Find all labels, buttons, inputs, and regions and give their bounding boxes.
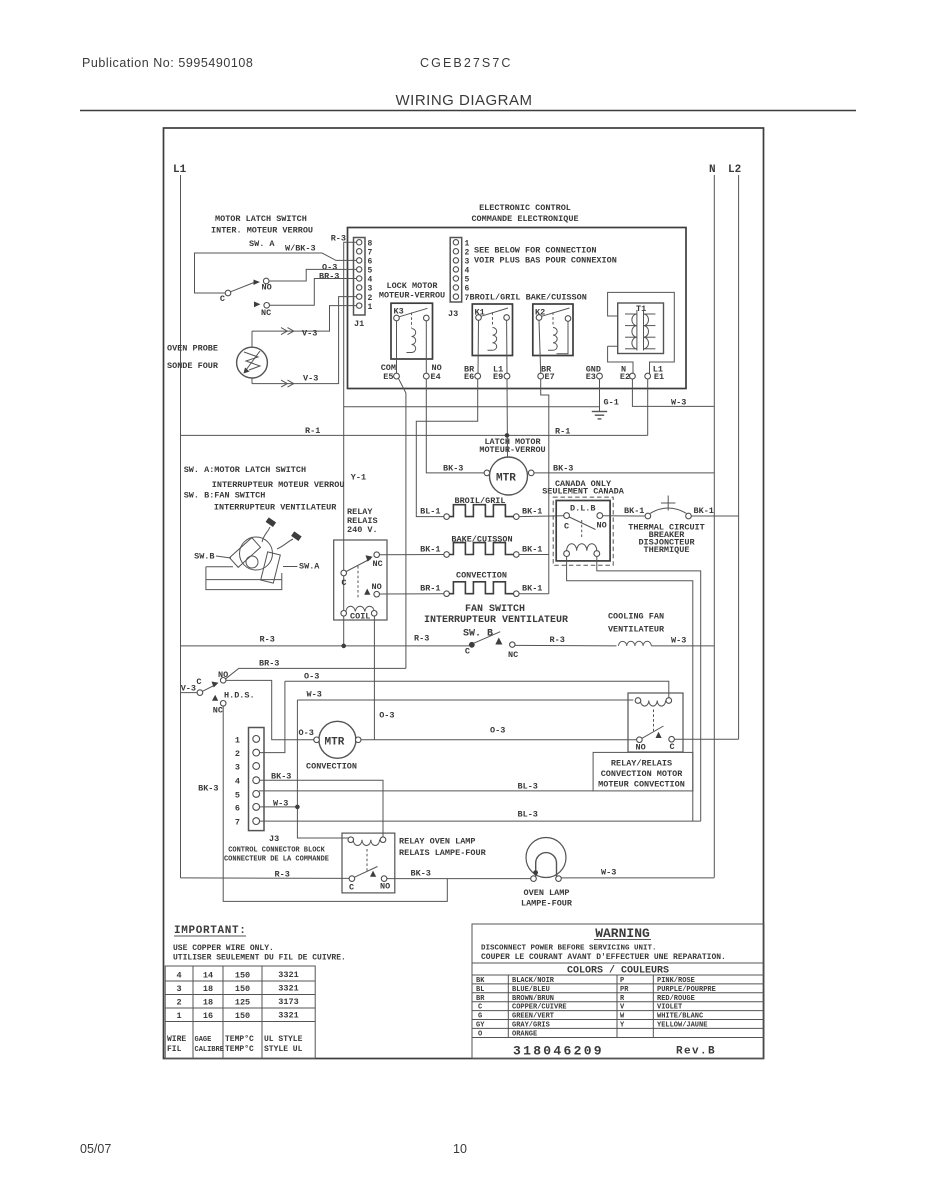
relay convection motor K5 — [628, 693, 683, 753]
svg-text:G-1: G-1 — [604, 398, 619, 408]
wire R-3 J1 pin8 down left side — [344, 242, 357, 646]
wire bake right to E7 riser — [519, 554, 549, 556]
svg-text:V-3: V-3 — [303, 374, 318, 384]
svg-text:BK-1: BK-1 — [522, 584, 542, 594]
svg-text:LOCK MOTOR: LOCK MOTOR — [386, 281, 438, 291]
svg-text:NO: NO — [372, 582, 382, 592]
svg-text:ELECTRONIC CONTROL: ELECTRONIC CONTROL — [479, 203, 571, 213]
svg-text:NC: NC — [213, 706, 223, 716]
svg-text:BROWN/BRUN: BROWN/BRUN — [512, 995, 554, 1003]
board pin E1 — [645, 365, 664, 383]
svg-text:W-3: W-3 — [307, 690, 322, 700]
relay oven lamp K4 — [342, 833, 395, 893]
svg-text:8: 8 — [368, 240, 373, 249]
warning box — [472, 924, 764, 1059]
wire breaker to L2 — [691, 515, 738, 517]
svg-text:CONVECTION: CONVECTION — [456, 571, 507, 581]
relay D.L.B — [556, 501, 610, 561]
svg-text:BL-3: BL-3 — [518, 782, 538, 792]
electronic control board U1 box — [348, 228, 687, 389]
wire lamp relay NO to oven lamp — [387, 878, 531, 880]
relay 240V double line break — [334, 540, 387, 622]
svg-text:INTERRUPTEUR VENTILATEUR: INTERRUPTEUR VENTILATEUR — [214, 503, 337, 513]
svg-text:Publication No: 5995490108: Publication No: 5995490108 — [82, 56, 253, 70]
svg-text:R-1: R-1 — [305, 426, 320, 436]
heating element bake/cuisson — [420, 535, 542, 558]
svg-text:RELAY/RELAIS: RELAY/RELAIS — [611, 759, 672, 769]
svg-text:NO: NO — [380, 882, 390, 892]
svg-text:3: 3 — [465, 258, 470, 267]
svg-text:18: 18 — [203, 984, 213, 994]
svg-text:E9: E9 — [493, 372, 503, 382]
connector J3 top — [448, 238, 470, 320]
svg-text:BK-3: BK-3 — [198, 784, 218, 794]
svg-text:150: 150 — [235, 984, 250, 994]
svg-text:BLUE/BLEU: BLUE/BLEU — [512, 986, 550, 994]
svg-text:BK-3: BK-3 — [553, 464, 573, 474]
svg-text:MOTEUR CONVECTION: MOTEUR CONVECTION — [598, 780, 685, 790]
svg-text:C: C — [196, 677, 201, 687]
svg-text:CONVECTION: CONVECTION — [306, 762, 357, 772]
svg-text:INTERRUPTEUR MOTEUR VERROU: INTERRUPTEUR MOTEUR VERROU — [212, 480, 345, 490]
svg-text:MTR: MTR — [496, 473, 516, 485]
wire HDS NO to convection motor O-3 — [226, 680, 314, 739]
svg-text:L2: L2 — [728, 164, 741, 176]
svg-text:BK-1: BK-1 — [522, 507, 542, 517]
relay D.L.B canada dashed enclosure — [553, 497, 613, 565]
svg-text:V-3: V-3 — [181, 684, 196, 694]
svg-text:5: 5 — [465, 276, 470, 285]
svg-text:UTILISER SEULEMENT DU FIL DE C: UTILISER SEULEMENT DU FIL DE CUIVRE. — [173, 954, 346, 963]
svg-text:150: 150 — [235, 971, 250, 981]
svg-text:18: 18 — [203, 998, 213, 1008]
svg-text:NO: NO — [597, 521, 607, 531]
svg-text:COOLING FAN: COOLING FAN — [608, 612, 664, 622]
wire R-3 L1 to lamp relay C — [181, 877, 350, 880]
svg-text:VENTILATEUR: VENTILATEUR — [608, 625, 665, 635]
svg-text:3: 3 — [176, 984, 181, 994]
svg-text:MOTOR LATCH SWITCH: MOTOR LATCH SWITCH — [215, 214, 307, 224]
svg-text:2: 2 — [465, 249, 470, 258]
wire K3 COM to E5 — [396, 321, 398, 373]
wire conv relay C to L2 — [674, 738, 738, 740]
wire J3 pin4 to lamp relay coil right — [259, 780, 383, 839]
wire R-3 main horizontal — [181, 644, 617, 647]
svg-text:DISCONNECT POWER BEFORE SERVIC: DISCONNECT POWER BEFORE SERVICING UNIT. — [481, 945, 657, 953]
svg-text:Rev.B: Rev.B — [676, 1046, 716, 1058]
wire O-3 J3 pin2 riser — [259, 681, 669, 752]
svg-text:C: C — [564, 522, 569, 532]
svg-text:H.D.S.: H.D.S. — [224, 691, 255, 701]
wire SW.A NC to J1 pin4 — [270, 279, 357, 306]
board pin E3 — [586, 365, 603, 383]
svg-text:J1: J1 — [354, 319, 364, 329]
svg-text:E3: E3 — [586, 372, 596, 382]
svg-text:YELLOW/JAUNE: YELLOW/JAUNE — [657, 1022, 707, 1030]
board pin E7 — [538, 365, 555, 383]
switch SW.A — [220, 278, 272, 318]
wire BK-3 latch motor right to N — [534, 472, 714, 474]
svg-text:O-3: O-3 — [379, 711, 394, 721]
wire W/BK-3 from SW.A common to J1 pin6 — [195, 253, 357, 293]
svg-text:3173: 3173 — [278, 997, 298, 1007]
svg-text:PR: PR — [620, 986, 629, 994]
svg-text:T1: T1 — [636, 304, 646, 314]
svg-text:COUPER LE COURANT AVANT D'EFFE: COUPER LE COURANT AVANT D'EFFECTUER UNE … — [481, 953, 726, 962]
svg-text:14: 14 — [203, 971, 213, 981]
svg-text:GAGE: GAGE — [195, 1036, 212, 1044]
svg-text:4: 4 — [176, 971, 181, 981]
board pin E2 — [620, 365, 635, 383]
svg-text:2: 2 — [368, 294, 373, 303]
cooling fan motor coil — [619, 641, 652, 646]
svg-text:W-3: W-3 — [671, 398, 686, 408]
svg-text:W-3: W-3 — [671, 636, 686, 646]
oven lamp — [521, 838, 573, 909]
wire convection right to riser — [519, 593, 549, 595]
switch HDS hi-limit — [196, 670, 254, 716]
svg-text:OVEN PROBE: OVEN PROBE — [167, 344, 218, 354]
svg-text:W-3: W-3 — [601, 868, 616, 878]
wire L2 vertical bus — [738, 175, 740, 739]
svg-text:SW.A: SW.A — [299, 562, 320, 572]
svg-text:STYLE UL: STYLE UL — [264, 1045, 303, 1054]
svg-text:5: 5 — [235, 791, 240, 801]
svg-text:SONDE FOUR: SONDE FOUR — [167, 361, 219, 371]
transformer T1 — [608, 292, 675, 376]
svg-text:INTER. MOTEUR VERROU: INTER. MOTEUR VERROU — [211, 226, 313, 236]
svg-text:SW.B: SW.B — [194, 552, 214, 562]
svg-text:4: 4 — [235, 777, 240, 787]
svg-text:7: 7 — [235, 818, 240, 828]
svg-text:BK-3: BK-3 — [443, 464, 463, 474]
svg-text:BK-3: BK-3 — [411, 869, 431, 879]
svg-text:SEE BELOW FOR CONNECTION: SEE BELOW FOR CONNECTION — [474, 246, 596, 256]
wire L1 vertical bus — [180, 175, 182, 878]
svg-text:3321: 3321 — [278, 1011, 298, 1021]
svg-text:R-1: R-1 — [555, 427, 570, 437]
svg-text:COIL: COIL — [350, 612, 370, 622]
wire E6 BL-1 drop to broil element — [416, 379, 477, 517]
wire J1 pin1 to oven probe top V-3 — [252, 306, 356, 332]
wire E7 riser down to convection right — [541, 379, 549, 594]
svg-text:E2: E2 — [620, 372, 630, 382]
svg-text:BLACK/NOIR: BLACK/NOIR — [512, 977, 555, 985]
svg-text:1: 1 — [465, 240, 470, 249]
color code table — [472, 975, 764, 1038]
junction dot R-1/E9 — [505, 433, 510, 438]
wire BL-3 J3 pin5 run — [259, 790, 593, 792]
svg-text:RELAY OVEN LAMP: RELAY OVEN LAMP — [399, 837, 476, 847]
svg-text:BL-1: BL-1 — [420, 507, 440, 517]
wire J1 pin2 to oven probe bottom V-3 — [252, 297, 356, 384]
svg-text:Y-1: Y-1 — [351, 473, 366, 483]
wire broil right to DLB common — [519, 515, 564, 518]
svg-text:2: 2 — [176, 998, 181, 1008]
svg-text:BL: BL — [476, 986, 484, 994]
svg-text:C: C — [478, 1004, 482, 1012]
svg-text:240 V.: 240 V. — [347, 525, 378, 535]
svg-text:RED/ROUGE: RED/ROUGE — [657, 995, 695, 1003]
svg-text:E1: E1 — [654, 372, 664, 382]
wire DLB coil right down and right — [597, 557, 701, 822]
svg-text:E6: E6 — [464, 372, 474, 382]
svg-text:TEMP°C: TEMP°C — [225, 1035, 254, 1044]
svg-text:J3: J3 — [269, 834, 279, 844]
wire K1 to E9 — [506, 320, 508, 373]
latch assembly pictorial — [194, 517, 320, 589]
svg-text:VOIR PLUS BAS POUR CONNEXION: VOIR PLUS BAS POUR CONNEXION — [474, 256, 617, 266]
svg-text:PURPLE/POURPRE: PURPLE/POURPRE — [657, 986, 716, 994]
svg-text:R-3: R-3 — [414, 634, 429, 644]
oven probe sensor — [167, 331, 267, 384]
svg-text:6: 6 — [368, 258, 373, 267]
svg-text:IMPORTANT:: IMPORTANT: — [174, 925, 247, 937]
svg-text:THERMIQUE: THERMIQUE — [644, 545, 690, 555]
svg-text:3: 3 — [368, 285, 373, 294]
svg-text:WARNING: WARNING — [595, 926, 650, 941]
svg-text:G: G — [478, 1013, 482, 1021]
wire BR-3 from HDS NO up to E5 riser — [226, 668, 406, 678]
svg-text:318046209: 318046209 — [513, 1044, 604, 1059]
svg-text:CONNECTEUR DE LA COMMANDE: CONNECTEUR DE LA COMMANDE — [224, 856, 329, 864]
svg-text:LAMPE-FOUR: LAMPE-FOUR — [521, 899, 573, 909]
svg-text:3321: 3321 — [278, 970, 298, 980]
svg-text:FIL: FIL — [167, 1045, 182, 1054]
thermal circuit breaker CB1 — [645, 496, 691, 519]
svg-text:NC: NC — [373, 559, 383, 569]
convection relay text enclosure — [593, 752, 693, 791]
svg-text:10: 10 — [453, 1142, 467, 1156]
heating element convection — [420, 571, 542, 597]
svg-text:BK-1: BK-1 — [420, 545, 440, 555]
svg-text:UL STYLE: UL STYLE — [264, 1035, 303, 1044]
wire K3 NO to E4 — [425, 321, 427, 373]
svg-text:GREEN/VERT: GREEN/VERT — [512, 1013, 554, 1021]
svg-text:WIRE: WIRE — [167, 1035, 186, 1044]
wire R-1 horizontal from L1 to E1 — [181, 434, 648, 436]
svg-text:CONTROL CONNECTOR BLOCK: CONTROL CONNECTOR BLOCK — [228, 847, 325, 855]
svg-text:7: 7 — [368, 249, 373, 258]
svg-text:SW. A: SW. A — [249, 239, 275, 249]
svg-text:C: C — [670, 742, 675, 752]
svg-text:3321: 3321 — [278, 984, 298, 994]
svg-text:R-3: R-3 — [260, 635, 275, 645]
legend switch descriptions — [184, 465, 345, 513]
wire SW.A NO to J1 pin5 — [269, 269, 356, 281]
wire DLB coil left down and right — [567, 557, 693, 822]
svg-text:O-3: O-3 — [490, 726, 505, 736]
relay K1 broil — [472, 304, 512, 356]
wire N vertical bus — [713, 175, 715, 878]
wire O-3 convection motor to conv relay NO — [361, 739, 637, 741]
svg-text:NC: NC — [508, 650, 518, 660]
wire relay coil right down to O-3 line — [373, 616, 375, 740]
svg-text:O-3: O-3 — [299, 728, 314, 738]
svg-text:E4: E4 — [431, 372, 441, 382]
svg-text:SW. A:MOTOR LATCH SWITCH: SW. A:MOTOR LATCH SWITCH — [184, 465, 306, 475]
svg-text:P: P — [620, 977, 624, 985]
wire E5 diagonal to BR-3 drop — [398, 378, 406, 668]
board pin E5 — [381, 363, 400, 382]
board pin E4 — [423, 363, 441, 382]
svg-text:BR-3: BR-3 — [319, 272, 339, 282]
wire convection left to relay NO — [380, 593, 444, 595]
svg-text:NC: NC — [261, 308, 271, 318]
heating element broil/gril — [420, 496, 542, 519]
wire bake left to relay NC — [380, 554, 444, 556]
svg-text:ORANGE: ORANGE — [512, 1030, 537, 1038]
svg-text:125: 125 — [235, 998, 250, 1008]
splice chevrons V-3 top — [281, 328, 294, 335]
svg-text:D.L.B: D.L.B — [570, 504, 596, 514]
svg-text:2: 2 — [235, 749, 240, 759]
convection motor MTR — [306, 721, 361, 771]
svg-text:5: 5 — [368, 267, 373, 276]
svg-text:O-3: O-3 — [304, 672, 319, 682]
svg-text:TEMP°C: TEMP°C — [225, 1045, 254, 1054]
wire L1 to HDS common — [181, 692, 198, 694]
wire DLB NO to thermal breaker — [603, 515, 646, 517]
svg-text:PINK/ROSE: PINK/ROSE — [657, 977, 695, 985]
svg-text:BK-1: BK-1 — [624, 506, 644, 516]
svg-text:C: C — [220, 294, 225, 304]
svg-text:E5: E5 — [383, 372, 393, 382]
svg-text:CALIBRE: CALIBRE — [195, 1046, 224, 1054]
svg-text:NO: NO — [636, 743, 646, 753]
svg-text:BROIL/GRIL BAKE/CUISSON: BROIL/GRIL BAKE/CUISSON — [470, 293, 587, 303]
svg-text:J3: J3 — [448, 309, 458, 319]
svg-text:BR-3: BR-3 — [259, 659, 279, 669]
svg-text:CONVECTION MOTOR: CONVECTION MOTOR — [601, 769, 684, 779]
svg-text:4: 4 — [465, 267, 470, 276]
board pin E9 — [493, 365, 510, 383]
wire W-3 E2 to N — [632, 379, 714, 406]
ground symbol — [592, 412, 607, 419]
svg-text:BK: BK — [476, 977, 485, 985]
svg-text:FAN SWITCH: FAN SWITCH — [465, 604, 525, 615]
svg-text:USE COPPER WIRE ONLY.: USE COPPER WIRE ONLY. — [173, 944, 274, 953]
diagram outer border frame — [164, 128, 764, 1059]
svg-text:05/07: 05/07 — [80, 1142, 111, 1156]
svg-text:GY: GY — [476, 1022, 485, 1030]
wire K1 to E6 — [477, 320, 480, 373]
wire oven lamp to N — [561, 877, 714, 879]
svg-text:C: C — [341, 578, 346, 588]
svg-text:1: 1 — [235, 736, 240, 746]
svg-text:WHITE/BLANC: WHITE/BLANC — [657, 1013, 703, 1021]
svg-text:W/BK-3: W/BK-3 — [285, 244, 316, 254]
svg-text:N: N — [709, 164, 716, 176]
svg-text:C: C — [349, 883, 354, 893]
splice chevrons V-3 bottom — [281, 380, 294, 387]
svg-text:NO: NO — [262, 283, 272, 293]
svg-text:CGEB27S7C: CGEB27S7C — [420, 56, 513, 70]
svg-text:L1: L1 — [173, 164, 187, 176]
svg-text:R-3: R-3 — [550, 635, 565, 645]
svg-text:SEULEMENT CANADA: SEULEMENT CANADA — [542, 487, 625, 497]
svg-text:SW. B:FAN SWITCH: SW. B:FAN SWITCH — [184, 491, 266, 501]
relay K2 bake — [533, 304, 573, 356]
wire NC BK-3 drop from HDS — [223, 706, 447, 901]
svg-text:BL-3: BL-3 — [518, 810, 538, 820]
connector J3 control block — [224, 728, 329, 864]
svg-text:4: 4 — [368, 276, 373, 285]
svg-text:1: 1 — [176, 1011, 181, 1021]
svg-text:COMMANDE ELECTRONIQUE: COMMANDE ELECTRONIQUE — [471, 214, 578, 224]
svg-text:WIRING DIAGRAM: WIRING DIAGRAM — [396, 92, 533, 109]
latch motor MTR — [484, 457, 534, 495]
svg-text:C: C — [465, 647, 470, 657]
wire J3 pin6 stub — [259, 806, 298, 808]
wire gauge table — [165, 966, 315, 1059]
svg-text:E7: E7 — [545, 372, 555, 382]
svg-text:MTR: MTR — [325, 737, 345, 749]
relay K3 lock motor — [391, 303, 433, 359]
svg-text:COPPER/CUIVRE: COPPER/CUIVRE — [512, 1004, 567, 1012]
wire W-3 to convection relay coil — [297, 700, 633, 839]
wire G-1 horizontal run to L1 side — [344, 406, 600, 408]
svg-text:BK-1: BK-1 — [522, 545, 542, 555]
svg-text:3: 3 — [235, 763, 240, 773]
svg-text:GRAY/GRIS: GRAY/GRIS — [512, 1022, 550, 1030]
svg-text:RELAIS LAMPE-FOUR: RELAIS LAMPE-FOUR — [399, 848, 487, 858]
switch SW.B fan switch — [465, 632, 518, 660]
wire E9 down to latch motor with junction — [506, 379, 509, 458]
svg-text:SW. B: SW. B — [463, 629, 493, 640]
svg-text:INTERRUPTEUR VENTILATEUR: INTERRUPTEUR VENTILATEUR — [424, 615, 568, 626]
junction dot relay coil R-3 — [341, 644, 346, 649]
wire E3 to chassis ground G-1 — [599, 379, 601, 412]
board pin E6 — [464, 365, 481, 383]
junction dot W-3 pin6 — [295, 805, 300, 810]
svg-text:150: 150 — [235, 1011, 250, 1021]
svg-text:MOTEUR-VERROU: MOTEUR-VERROU — [479, 445, 545, 455]
svg-text:6: 6 — [235, 804, 240, 814]
connector J1 — [354, 238, 373, 330]
title rule — [80, 110, 856, 112]
wire BL-3 J3 pin7 run — [259, 820, 701, 822]
svg-text:O: O — [478, 1030, 482, 1038]
svg-text:BR-1: BR-1 — [420, 584, 440, 594]
svg-text:BK-1: BK-1 — [694, 506, 714, 516]
wire K2 to E7 — [539, 320, 541, 373]
wire W-3 fan to N — [651, 645, 714, 647]
svg-text:BR: BR — [476, 995, 485, 1003]
svg-text:OVEN LAMP: OVEN LAMP — [524, 888, 570, 898]
svg-text:16: 16 — [203, 1011, 213, 1021]
svg-text:MOTEUR-VERROU: MOTEUR-VERROU — [379, 291, 445, 301]
wire R-1 E1 down to R-1 line — [647, 379, 649, 435]
svg-text:1: 1 — [368, 303, 373, 312]
svg-text:V-3: V-3 — [302, 329, 317, 339]
wire E4 BK-3 to latch motor left — [426, 379, 484, 473]
svg-text:VIOLET: VIOLET — [657, 1004, 682, 1012]
